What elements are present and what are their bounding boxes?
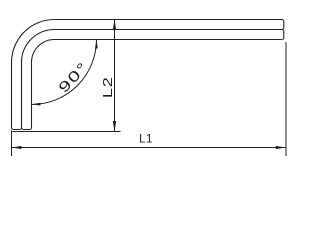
svg-text:L1: L1 (139, 133, 153, 145)
hex key outer edge (leg left edge, outer bend arc, rod top edge) (12, 20, 282, 128)
arrowhead L2 bottom (113, 121, 116, 132)
arrowhead L2 top (113, 20, 116, 31)
arrowhead angle top (points up, tip on rod bottom edge) (95, 40, 98, 49)
svg-text:90°: 90° (55, 59, 91, 96)
arrowhead angle left (points left, tip on leg right edge) (32, 103, 41, 106)
extension line bottom of leg (horizontal, for L2) (13, 131, 121, 133)
arrowhead L1 left (12, 146, 22, 149)
rod right end cap (two rounded band ends) (282, 20, 284, 40)
dimension line L2 (114, 20, 116, 132)
extension line right (below rod end, for L1) (285, 42, 287, 156)
svg-text:L2: L2 (102, 77, 116, 99)
hex key inner edge (leg right edge, inner bend arc, rod bottom edge) (32, 40, 282, 128)
leg bottom end cap (two rounded band ends) (12, 128, 32, 130)
dimension line L1 (12, 147, 287, 149)
hex key middle edge line (22, 30, 282, 128)
extension line left (below leg, for L1) (11, 131, 13, 157)
arrowhead L1 right (276, 146, 286, 149)
angle dimension arc (90 degrees, centered at inner corner) (32, 40, 97, 105)
